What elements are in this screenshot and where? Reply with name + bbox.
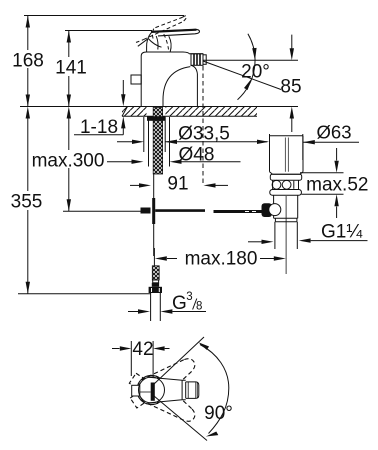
angle 90 arrowheads [198, 342, 209, 350]
bottom view tab [132, 385, 140, 396]
dimension diameter 33,5 [117, 141, 134, 143]
wire deck slab bottom line [122, 115, 257, 117]
dimension G1 1/4 leader [248, 241, 262, 243]
dimension 355 vertical line [27, 119, 29, 294]
svg-text:90°: 90° [204, 403, 233, 424]
svg-text:91: 91 [167, 174, 188, 195]
drain tailpipe [275, 222, 297, 249]
faucet body inner fillet [163, 67, 190, 107]
handle neck [169, 36, 171, 52]
deck slab hatched left part [122, 107, 147, 116]
bottom view handle bar [151, 383, 155, 401]
dimension 42 [112, 348, 120, 350]
drain flange [270, 190, 302, 196]
faucet shank hose lines [144, 117, 170, 167]
dimension 168 vertical line [27, 16, 29, 107]
wire deck mounting surface line [20, 106, 298, 108]
dimension 1-18 arrows at deck [122, 80, 124, 135]
drain centerline [285, 196, 287, 274]
dimension diameter 63 right arrow [303, 141, 359, 143]
angle 20 degree slanted line [203, 61, 281, 90]
drain body [274, 195, 298, 218]
hose checkered segment [152, 266, 159, 280]
drain collar [270, 174, 301, 180]
pop-up lever knob [262, 203, 273, 217]
faucet temperature limiter tab [131, 75, 141, 84]
pop-up rod clamp [141, 208, 151, 214]
angle 20 degree horizontal line [203, 59, 298, 61]
svg-text:Ø63: Ø63 [317, 122, 352, 143]
dimension max.52 arrows [336, 148, 338, 218]
dimension 85 arrows [291, 35, 293, 132]
svg-text:max.300: max.300 [32, 151, 105, 172]
handle dome [138, 39, 147, 46]
angle 90 arc [200, 345, 229, 434]
bottom view aerator inner lines [188, 382, 197, 398]
svg-text:355: 355 [11, 192, 43, 213]
dashed spout outlet centerline [202, 66, 204, 183]
bottom view 42 extension lines [131, 341, 153, 382]
pop-up horizontal rod left [155, 209, 205, 212]
svg-text:max.52: max.52 [306, 175, 368, 196]
bottom view faucet body white fill [139, 377, 165, 403]
drain tube [270, 136, 304, 172]
faucet threaded shank (checkered) [153, 108, 162, 175]
bottom view phantom spout up (dashed) [125, 349, 202, 414]
svg-text:G1¼: G1¼ [321, 222, 363, 243]
wire 355 bottom line [18, 293, 151, 295]
faucet body outline [141, 52, 203, 107]
spout aerator [191, 54, 203, 66]
hose ferrule [153, 280, 159, 283]
svg-text:141: 141 [55, 58, 87, 79]
faucet mounting nut under deck [147, 116, 166, 121]
bottom view faucet outline [139, 377, 165, 403]
wire top reference line L1 [24, 15, 184, 17]
svg-text:max.180: max.180 [185, 248, 258, 269]
dimension max.180 [153, 248, 155, 266]
handle phantom raised (dashed) [136, 16, 186, 50]
wire handle-top reference line L2 [65, 30, 152, 32]
bottom view phantom spout down (dashed) [125, 366, 202, 431]
svg-text:G: G [172, 293, 187, 314]
svg-text:3: 3 [186, 291, 192, 303]
drain ball joint [269, 204, 281, 216]
angle arc arrowheads [252, 48, 256, 60]
deck slab left edge [122, 107, 128, 117]
dimension 141 vertical line [68, 31, 70, 107]
deck slab hatched right part [166, 107, 258, 116]
svg-text:85: 85 [280, 77, 301, 98]
dimension diameter 63 extension lines [270, 134, 303, 160]
dimension 91 [130, 184, 139, 186]
svg-text:Ø48: Ø48 [179, 144, 215, 165]
drain band [275, 218, 297, 222]
svg-text:168: 168 [12, 51, 44, 72]
hose nut [149, 287, 162, 293]
pop-up horizontal rod right [214, 210, 264, 213]
wire max.300 lower extent line [63, 210, 141, 212]
pop-up rod pull vertical line [153, 174, 155, 256]
drain slot section [273, 180, 299, 189]
dimension diameter 48 [107, 161, 132, 163]
svg-text:8: 8 [196, 300, 202, 312]
svg-text:20°: 20° [241, 62, 270, 83]
dimension G3/8 arrows [128, 311, 138, 313]
svg-text:42: 42 [132, 339, 153, 360]
dimension max.52 extent lines [300, 173, 344, 194]
angle 20 degree arc [238, 34, 256, 100]
handle lever blade [151, 29, 200, 36]
hose nut upper band [152, 283, 159, 287]
svg-text:Ø33,5: Ø33,5 [178, 124, 230, 145]
angle 90 extension lines [154, 337, 204, 384]
hose G3/8 thread tube [151, 293, 161, 321]
drain taper [270, 172, 304, 175]
dimension max.300 vertical line [68, 119, 70, 212]
